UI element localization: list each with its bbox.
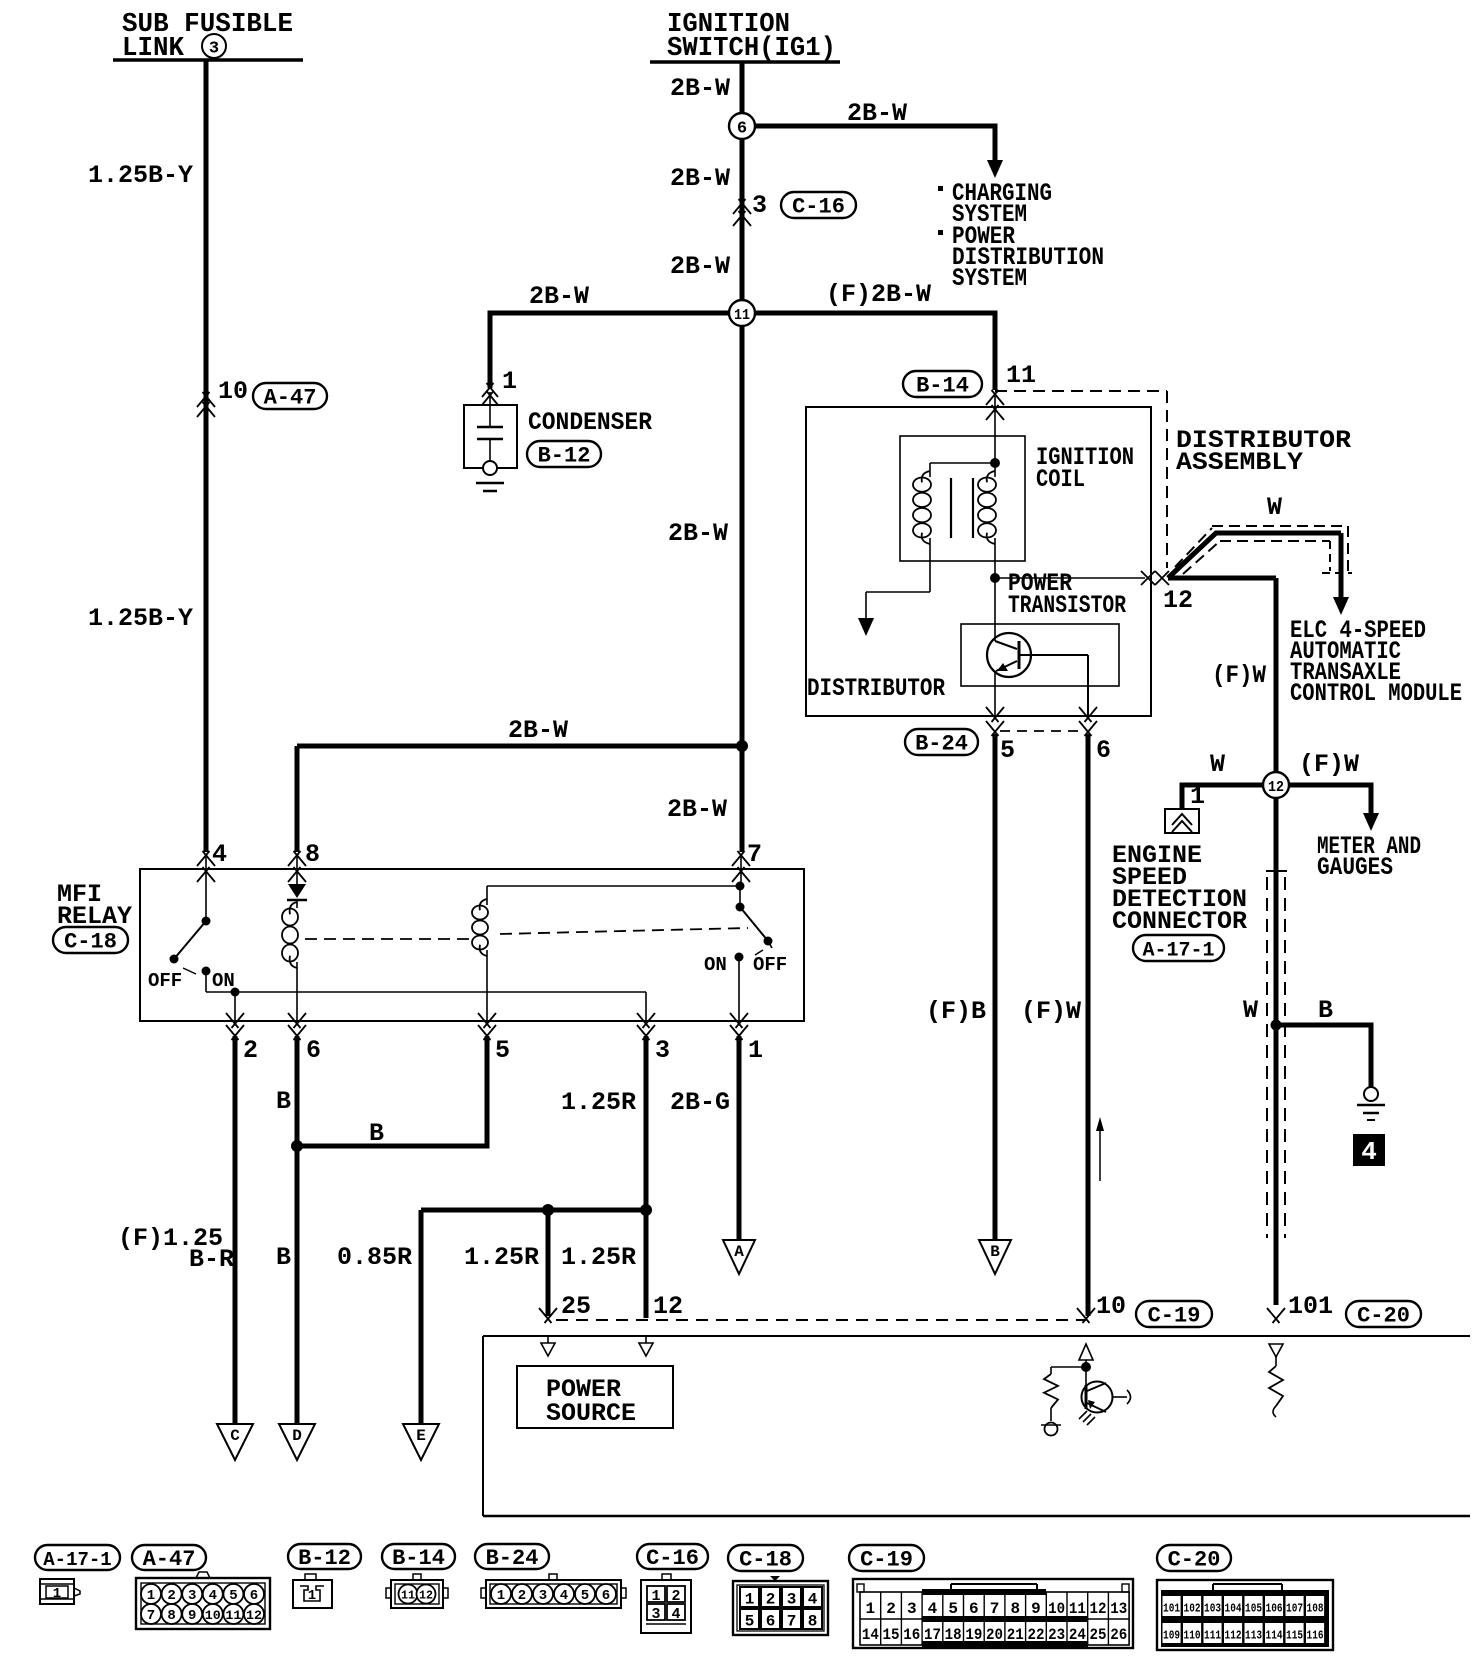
svg-text:5: 5	[948, 1600, 958, 1618]
svg-text:1: 1	[308, 1588, 316, 1604]
svg-text:111: 111	[1204, 1629, 1221, 1643]
svg-text:C-20: C-20	[1357, 1304, 1410, 1329]
svg-text:1: 1	[651, 1588, 660, 1605]
svg-text:9: 9	[1031, 1600, 1041, 1618]
svg-text:10: 10	[1048, 1600, 1065, 1618]
svg-text:1: 1	[748, 1036, 763, 1065]
svg-text:3: 3	[539, 1588, 547, 1604]
svg-text:B-14: B-14	[916, 374, 969, 399]
svg-text:3: 3	[655, 1036, 670, 1065]
svg-text:W: W	[1210, 750, 1225, 779]
svg-text:6: 6	[1096, 736, 1111, 765]
svg-text:1.25B-Y: 1.25B-Y	[88, 604, 193, 633]
svg-text:1: 1	[866, 1600, 876, 1618]
svg-text:2B-W: 2B-W	[508, 716, 568, 745]
svg-text:2B-W: 2B-W	[670, 164, 730, 193]
svg-text:21: 21	[1007, 1626, 1024, 1644]
svg-text:B-R: B-R	[189, 1245, 234, 1274]
svg-text:A-17-1: A-17-1	[43, 1549, 111, 1571]
svg-text:8: 8	[305, 840, 320, 869]
svg-text:A: A	[734, 1243, 744, 1261]
svg-text:5: 5	[495, 1036, 510, 1065]
svg-text:B-24: B-24	[486, 1546, 539, 1571]
svg-text:17: 17	[924, 1626, 941, 1644]
svg-text:7: 7	[787, 1613, 797, 1631]
svg-text:2B-G: 2B-G	[670, 1088, 730, 1117]
svg-text:1: 1	[147, 1588, 155, 1604]
svg-text:23: 23	[1048, 1626, 1065, 1644]
svg-text:D: D	[292, 1427, 302, 1445]
svg-text:101: 101	[1288, 1292, 1333, 1321]
svg-text:W: W	[1267, 493, 1282, 522]
svg-text:1.25B-Y: 1.25B-Y	[88, 161, 193, 190]
svg-text:3: 3	[752, 191, 767, 220]
svg-text:3: 3	[209, 40, 219, 59]
svg-text:B: B	[276, 1087, 291, 1116]
svg-text:B: B	[276, 1243, 291, 1272]
svg-text:12: 12	[419, 1589, 433, 1603]
svg-text:114: 114	[1266, 1629, 1283, 1643]
svg-text:106: 106	[1266, 1602, 1283, 1616]
svg-text:102: 102	[1184, 1602, 1201, 1616]
svg-text:11: 11	[1006, 361, 1036, 390]
svg-text:4: 4	[1361, 1137, 1377, 1167]
svg-text:C-19: C-19	[1148, 1304, 1201, 1329]
svg-text:ON: ON	[704, 954, 727, 976]
svg-text:109: 109	[1163, 1629, 1180, 1643]
svg-text:11: 11	[734, 307, 750, 324]
svg-text:(F)W: (F)W	[1021, 997, 1081, 1026]
svg-text:C-16: C-16	[646, 1546, 699, 1571]
svg-text:3: 3	[651, 1606, 660, 1623]
svg-text:4: 4	[560, 1588, 568, 1604]
svg-text:DISTRIBUTOR: DISTRIBUTOR	[807, 674, 945, 703]
svg-text:4: 4	[808, 1591, 818, 1609]
svg-text:5: 5	[745, 1613, 755, 1631]
svg-text:C: C	[230, 1427, 240, 1445]
svg-text:W: W	[1243, 996, 1258, 1025]
svg-text:18: 18	[945, 1626, 962, 1644]
svg-text:104: 104	[1225, 1602, 1242, 1616]
svg-text:103: 103	[1204, 1602, 1221, 1616]
svg-text:12: 12	[1090, 1600, 1107, 1618]
svg-text:25: 25	[1090, 1626, 1107, 1644]
svg-text:10: 10	[1096, 1292, 1126, 1321]
svg-text:5: 5	[229, 1588, 237, 1604]
svg-text:3: 3	[188, 1588, 196, 1604]
svg-text:101: 101	[1163, 1602, 1180, 1616]
svg-text:CONNECTOR: CONNECTOR	[1112, 907, 1247, 936]
svg-text:0.85R: 0.85R	[337, 1243, 412, 1272]
svg-text:2B-W: 2B-W	[667, 795, 727, 824]
svg-text:C-20: C-20	[1168, 1548, 1221, 1573]
svg-text:C-16: C-16	[792, 195, 845, 220]
svg-text:25: 25	[561, 1292, 591, 1321]
svg-text:20: 20	[986, 1626, 1003, 1644]
svg-text:16: 16	[903, 1626, 920, 1644]
svg-text:8: 8	[167, 1608, 175, 1624]
svg-text:CONDENSER: CONDENSER	[528, 408, 652, 437]
svg-text:2: 2	[518, 1588, 526, 1604]
svg-text:6: 6	[766, 1613, 776, 1631]
svg-text:A-47: A-47	[143, 1547, 196, 1572]
svg-text:7: 7	[990, 1600, 1000, 1618]
svg-text:6: 6	[737, 120, 747, 139]
svg-text:4: 4	[209, 1588, 217, 1604]
svg-text:B: B	[1318, 996, 1333, 1025]
svg-text:8: 8	[808, 1613, 818, 1631]
svg-text:112: 112	[1225, 1629, 1242, 1643]
svg-text:110: 110	[1184, 1629, 1201, 1643]
svg-text:(F)B: (F)B	[926, 997, 986, 1026]
svg-text:13: 13	[1110, 1600, 1127, 1618]
svg-text:(F)2B-W: (F)2B-W	[826, 280, 931, 309]
svg-text:22: 22	[1027, 1626, 1044, 1644]
svg-text:B-24: B-24	[915, 732, 968, 757]
svg-text:B: B	[990, 1243, 1000, 1261]
svg-text:E: E	[416, 1427, 426, 1445]
svg-text:116: 116	[1307, 1629, 1324, 1643]
svg-text:A-17-1: A-17-1	[1142, 940, 1214, 963]
svg-text:14: 14	[862, 1626, 879, 1644]
svg-text:105: 105	[1245, 1602, 1262, 1616]
svg-text:2: 2	[243, 1036, 258, 1065]
svg-text:C-18: C-18	[739, 1548, 792, 1573]
svg-text:2B-W: 2B-W	[668, 519, 728, 548]
svg-text:5: 5	[581, 1588, 589, 1604]
svg-text:3: 3	[787, 1591, 797, 1609]
svg-text:12: 12	[1163, 586, 1193, 615]
svg-text:1: 1	[497, 1588, 505, 1604]
svg-text:15: 15	[883, 1626, 900, 1644]
svg-text:24: 24	[1069, 1626, 1086, 1644]
svg-text:2B-W: 2B-W	[670, 252, 730, 281]
svg-text:CONTROL MODULE: CONTROL MODULE	[1290, 679, 1462, 708]
svg-text:1.25R: 1.25R	[561, 1243, 636, 1272]
svg-text:SOURCE: SOURCE	[546, 1399, 636, 1428]
svg-text:7: 7	[147, 1608, 155, 1624]
svg-text:2B-W: 2B-W	[847, 99, 907, 128]
svg-text:12: 12	[653, 1292, 683, 1321]
svg-text:113: 113	[1245, 1629, 1262, 1643]
svg-text:6: 6	[969, 1600, 979, 1618]
svg-text:ASSEMBLY: ASSEMBLY	[1176, 448, 1303, 477]
svg-text:SYSTEM: SYSTEM	[952, 264, 1027, 293]
svg-text:TRANSISTOR: TRANSISTOR	[1008, 591, 1126, 620]
svg-text:1: 1	[745, 1591, 755, 1609]
svg-text:19: 19	[965, 1626, 982, 1644]
svg-text:2B-W: 2B-W	[529, 282, 589, 311]
svg-text:115: 115	[1286, 1629, 1303, 1643]
svg-text:4: 4	[928, 1600, 938, 1618]
svg-text:2B-W: 2B-W	[670, 74, 730, 103]
svg-text:A-47: A-47	[264, 386, 317, 411]
svg-text:4: 4	[671, 1606, 680, 1623]
svg-text:GAUGES: GAUGES	[1317, 853, 1393, 882]
svg-text:1.25R: 1.25R	[464, 1243, 539, 1272]
svg-text:(F)W: (F)W	[1299, 750, 1359, 779]
svg-text:10: 10	[218, 377, 248, 406]
svg-text:2: 2	[167, 1588, 175, 1604]
svg-text:2: 2	[671, 1588, 680, 1605]
svg-text:8: 8	[1010, 1600, 1020, 1618]
svg-text:6: 6	[250, 1588, 258, 1604]
svg-text:10: 10	[205, 1608, 221, 1623]
svg-text:1: 1	[53, 1586, 61, 1602]
svg-text:6: 6	[306, 1036, 321, 1065]
svg-text:26: 26	[1110, 1626, 1127, 1644]
svg-text:C-19: C-19	[860, 1548, 913, 1573]
svg-text:(F)W: (F)W	[1212, 661, 1266, 690]
svg-text:COIL: COIL	[1036, 465, 1085, 494]
svg-text:ON: ON	[212, 970, 235, 992]
svg-text:B-14: B-14	[392, 1546, 445, 1571]
svg-text:107: 107	[1286, 1602, 1303, 1616]
svg-text:C-18: C-18	[64, 930, 117, 955]
svg-text:12: 12	[1268, 779, 1284, 796]
svg-text:1: 1	[1190, 782, 1205, 811]
svg-text:3: 3	[907, 1600, 917, 1618]
svg-text:1.25R: 1.25R	[561, 1088, 636, 1117]
svg-text:SWITCH(IG1): SWITCH(IG1)	[667, 34, 836, 64]
svg-text:11: 11	[225, 1608, 241, 1623]
svg-text:1: 1	[502, 367, 517, 396]
svg-text:11: 11	[1069, 1600, 1086, 1618]
svg-text:B: B	[369, 1119, 384, 1148]
svg-text:B-12: B-12	[538, 444, 591, 469]
svg-text:2: 2	[886, 1600, 896, 1618]
svg-text:2: 2	[766, 1591, 776, 1609]
svg-text:B-12: B-12	[298, 1546, 351, 1571]
svg-text:9: 9	[188, 1608, 196, 1624]
svg-text:11: 11	[401, 1589, 415, 1603]
svg-text:12: 12	[246, 1608, 262, 1623]
svg-text:OFF: OFF	[148, 970, 182, 992]
svg-text:5: 5	[1000, 736, 1015, 765]
svg-text:OFF: OFF	[753, 954, 787, 976]
svg-text:108: 108	[1307, 1602, 1324, 1616]
svg-text:6: 6	[602, 1588, 610, 1604]
